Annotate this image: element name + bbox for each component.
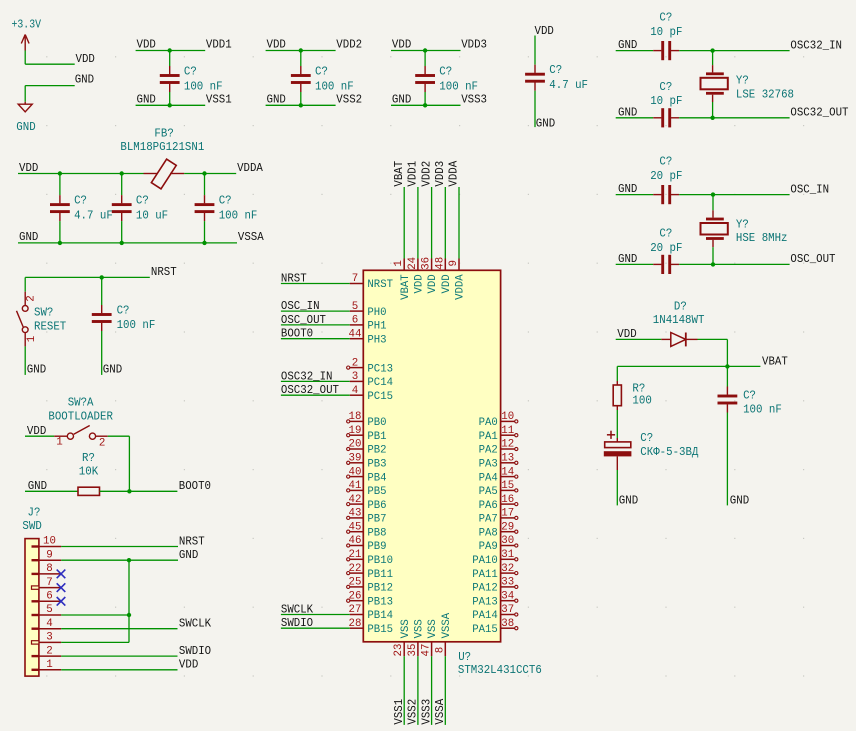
svg-text:OSC_OUT: OSC_OUT bbox=[281, 313, 326, 327]
wire GND to resistor bbox=[25, 490, 78, 492]
svg-text:C?: C? bbox=[315, 65, 328, 79]
wire MCU bottom pin 35 to VSS2 bbox=[417, 642, 419, 725]
ground symbol bbox=[18, 102, 32, 112]
MCU pin 39 PB3 (unconnected) bbox=[347, 461, 364, 464]
MCU pin 13 PA3 (unconnected) bbox=[501, 461, 518, 464]
svg-text:PB4: PB4 bbox=[367, 472, 386, 484]
junction VDD rail B bbox=[120, 171, 124, 175]
svg-text:48: 48 bbox=[434, 257, 446, 270]
wire resistor to BOOT0 bbox=[100, 490, 178, 492]
junction top block 1 bbox=[168, 48, 172, 52]
capacitor C? 20 pF a bbox=[653, 185, 679, 204]
junction OSC_OUT bbox=[711, 262, 715, 266]
MCU pin 21 PB10 (unconnected) bbox=[347, 558, 364, 561]
svg-text:34: 34 bbox=[501, 590, 514, 602]
wire MCU bottom pin 47 to VSS3 bbox=[431, 642, 433, 725]
capacitor C? 10 pF b bbox=[653, 108, 679, 127]
svg-text:OSC32_IN: OSC32_IN bbox=[790, 38, 842, 52]
svg-text:VSS: VSS bbox=[414, 619, 426, 638]
svg-text:C?: C? bbox=[659, 226, 672, 240]
svg-text:D?: D? bbox=[674, 300, 687, 314]
svg-text:29: 29 bbox=[501, 521, 514, 533]
svg-text:C?: C? bbox=[640, 431, 653, 445]
junction VDDA bbox=[202, 171, 206, 175]
svg-text:2: 2 bbox=[352, 357, 359, 369]
svg-text:C?: C? bbox=[219, 194, 232, 208]
svg-text:7: 7 bbox=[352, 273, 359, 285]
svg-text:1: 1 bbox=[26, 336, 38, 343]
svg-text:10 pF: 10 pF bbox=[650, 25, 682, 39]
svg-text:VSSA: VSSA bbox=[433, 698, 447, 725]
capacitor C? 4.7uF analog bbox=[50, 174, 70, 243]
MCU pin 31 PA10 (unconnected) bbox=[501, 558, 518, 561]
svg-text:C?: C? bbox=[659, 155, 672, 169]
svg-text:PH3: PH3 bbox=[367, 334, 386, 346]
wire GND rail block 2 bbox=[266, 104, 336, 106]
junction VSSA rail B bbox=[120, 241, 124, 245]
wire VBAT to resistor bbox=[616, 366, 618, 381]
wire pin9 GND bbox=[61, 559, 178, 561]
junction pin5 bus bbox=[127, 613, 131, 617]
svg-text:GND: GND bbox=[137, 92, 156, 106]
wire cap to OSC_OUT bbox=[679, 263, 789, 265]
svg-text:LSE 32768: LSE 32768 bbox=[736, 87, 794, 101]
svg-text:16: 16 bbox=[501, 494, 514, 506]
wire VDD3 to MCU top pin 48 bbox=[444, 187, 446, 270]
capacitor C? 20 pF b bbox=[653, 255, 679, 274]
svg-text:39: 39 bbox=[349, 453, 362, 465]
svg-text:47: 47 bbox=[421, 644, 433, 657]
svg-text:BOOT0: BOOT0 bbox=[281, 327, 313, 341]
MCU pin 10 PA0 (unconnected) bbox=[501, 420, 518, 423]
svg-text:C?: C? bbox=[439, 65, 452, 79]
svg-text:VSS1: VSS1 bbox=[206, 92, 232, 106]
svg-text:GND: GND bbox=[19, 230, 38, 244]
connector pin 10 bbox=[32, 545, 62, 547]
wire GND to cap (OSC_OUT) bbox=[616, 263, 654, 265]
svg-text:28: 28 bbox=[349, 618, 362, 630]
MCU pin 22 PB11 (unconnected) bbox=[347, 572, 364, 575]
svg-text:VDD1: VDD1 bbox=[206, 38, 232, 52]
svg-text:PA12: PA12 bbox=[472, 583, 498, 595]
svg-text:PA5: PA5 bbox=[479, 486, 498, 498]
wire VDD2 to MCU top pin 36 bbox=[431, 187, 433, 270]
svg-text:SWDIO: SWDIO bbox=[281, 616, 313, 630]
svg-text:18: 18 bbox=[349, 411, 362, 423]
svg-text:OSC32_OUT: OSC32_OUT bbox=[790, 106, 848, 120]
svg-text:1N4148WT: 1N4148WT bbox=[653, 313, 705, 327]
svg-text:19: 19 bbox=[349, 425, 362, 437]
junction bottom block 1 bbox=[168, 103, 172, 107]
svg-text:9: 9 bbox=[448, 260, 460, 267]
junction OSC_IN bbox=[711, 192, 715, 196]
svg-text:VDD3: VDD3 bbox=[433, 161, 447, 187]
svg-text:4.7 uF: 4.7 uF bbox=[549, 78, 588, 92]
svg-text:SWD: SWD bbox=[22, 519, 41, 533]
svg-text:Y?: Y? bbox=[736, 217, 749, 231]
MCU pin 42 PB6 (unconnected) bbox=[347, 503, 364, 506]
svg-text:PA6: PA6 bbox=[479, 500, 498, 512]
connector pin 7 bbox=[32, 586, 62, 589]
svg-text:37: 37 bbox=[501, 604, 514, 616]
svg-text:PB0: PB0 bbox=[367, 417, 386, 429]
wire GND to cap (OSC_IN) bbox=[616, 194, 654, 196]
diode D? 1N4148WT bbox=[661, 333, 697, 347]
svg-text:C?: C? bbox=[659, 80, 672, 94]
svg-text:STM32L431CCT6: STM32L431CCT6 bbox=[458, 663, 542, 677]
wire OSC32_IN to MCU pin 3 bbox=[281, 380, 363, 382]
svg-text:BOOTLOADER: BOOTLOADER bbox=[48, 410, 113, 424]
svg-text:24: 24 bbox=[407, 257, 419, 270]
capacitor C? 100nF vbat bbox=[718, 366, 738, 505]
svg-text:46: 46 bbox=[349, 535, 362, 547]
crystal Y? HSE bbox=[701, 195, 728, 265]
wire VBAT net bbox=[617, 365, 760, 367]
wire VDDA to MCU top pin 9 bbox=[458, 187, 460, 270]
svg-text:VSSA: VSSA bbox=[441, 612, 453, 638]
svg-text:6: 6 bbox=[352, 315, 359, 327]
svg-text:VDD2: VDD2 bbox=[419, 161, 433, 187]
svg-text:30: 30 bbox=[501, 535, 514, 547]
capacitor C? 10uF analog bbox=[112, 174, 132, 243]
svg-text:31: 31 bbox=[501, 549, 514, 561]
svg-text:VBAT: VBAT bbox=[400, 274, 412, 300]
svg-text:40: 40 bbox=[349, 466, 362, 478]
svg-text:10 pF: 10 pF bbox=[650, 94, 682, 108]
MCU pin 43 PB7 (unconnected) bbox=[347, 516, 364, 519]
svg-text:PB8: PB8 bbox=[367, 527, 386, 539]
MCU pin 37 PA14 (unconnected) bbox=[501, 613, 518, 616]
svg-text:GND: GND bbox=[619, 494, 638, 508]
MCU pin 34 PA13 (unconnected) bbox=[501, 599, 518, 602]
svg-text:PB15: PB15 bbox=[367, 624, 393, 636]
svg-text:PA4: PA4 bbox=[479, 472, 498, 484]
svg-text:BOOT0: BOOT0 bbox=[179, 479, 211, 493]
svg-text:PC13: PC13 bbox=[367, 363, 393, 375]
wire VDD rail block 3 bbox=[391, 50, 461, 52]
svg-text:VDD: VDD bbox=[414, 274, 426, 293]
switch SW?A BOOTLOADER bbox=[54, 426, 108, 440]
capacitor C? 100nF analog bbox=[195, 174, 215, 243]
svg-text:100 nF: 100 nF bbox=[315, 79, 354, 93]
svg-text:41: 41 bbox=[349, 480, 362, 492]
svg-text:VBAT: VBAT bbox=[392, 161, 406, 187]
svg-text:PH1: PH1 bbox=[367, 321, 386, 333]
capacitor C? 4.7uF bbox=[525, 36, 545, 128]
wire pin1 VDD bbox=[61, 669, 177, 671]
wire pin2 SWDIO bbox=[61, 655, 177, 657]
svg-text:4: 4 bbox=[46, 618, 53, 630]
svg-text:22: 22 bbox=[349, 563, 362, 575]
junction VSSA rail A bbox=[58, 241, 62, 245]
wire GND to cap (OSC32_OUT) bbox=[616, 117, 654, 119]
MCU pin 40 PB4 (unconnected) bbox=[347, 475, 364, 478]
svg-text:PB13: PB13 bbox=[367, 596, 393, 608]
svg-text:PA13: PA13 bbox=[472, 596, 498, 608]
connector pin 6 bbox=[32, 600, 62, 602]
wire VDD to ferrite bead bbox=[18, 173, 144, 175]
battery C? polarized bbox=[604, 431, 632, 470]
svg-text:PB10: PB10 bbox=[367, 555, 393, 567]
wire SWDIO to MCU pin 28 bbox=[281, 627, 363, 629]
wire GND to ground symbol bbox=[25, 86, 74, 102]
MCU pin 12 PA2 (unconnected) bbox=[501, 447, 518, 450]
svg-text:VSS3: VSS3 bbox=[461, 92, 487, 106]
svg-text:PB5: PB5 bbox=[367, 486, 386, 498]
svg-text:VDD: VDD bbox=[137, 38, 156, 52]
wire cap to OSC_IN bbox=[679, 194, 789, 196]
svg-text:5: 5 bbox=[46, 604, 53, 616]
resistor R? 10K bbox=[78, 487, 100, 495]
wire resistor to battery bbox=[616, 410, 618, 438]
wire GND rail block 1 bbox=[136, 104, 206, 106]
MCU pin 19 PB1 (unconnected) bbox=[347, 434, 364, 437]
connector pin 8 bbox=[32, 573, 62, 575]
capacitor C? 100nF block 1 bbox=[160, 51, 180, 106]
MCU pin 45 PB8 (unconnected) bbox=[347, 530, 364, 533]
svg-text:2: 2 bbox=[46, 645, 53, 657]
svg-text:GND: GND bbox=[179, 548, 198, 562]
svg-text:6: 6 bbox=[46, 591, 53, 603]
svg-text:32: 32 bbox=[501, 563, 514, 575]
resistor R? 100 bbox=[613, 381, 621, 410]
svg-text:PB3: PB3 bbox=[367, 459, 386, 471]
svg-text:10 uF: 10 uF bbox=[136, 208, 168, 222]
wire pin5 to bus bbox=[61, 614, 129, 616]
svg-text:FB?: FB? bbox=[154, 127, 173, 141]
wire VDD rail block 2 bbox=[266, 50, 336, 52]
wire pin3 to bus bbox=[61, 641, 129, 643]
wire battery to GND bbox=[616, 470, 618, 505]
svg-text:PA2: PA2 bbox=[479, 445, 498, 457]
svg-text:VDD3: VDD3 bbox=[461, 38, 487, 52]
junction pin9 bus bbox=[127, 558, 131, 562]
wire NRST to switch bbox=[24, 277, 26, 291]
wire SWCLK to MCU pin 27 bbox=[281, 614, 363, 616]
MCU pin 17 PA7 (unconnected) bbox=[501, 516, 518, 519]
svg-text:PB11: PB11 bbox=[367, 569, 393, 581]
wire +3.3V to VDD bbox=[25, 51, 74, 65]
svg-text:VDD: VDD bbox=[19, 161, 38, 175]
wire switch to GND bbox=[24, 346, 26, 375]
wire OSC_IN to MCU pin 5 bbox=[281, 310, 363, 312]
svg-text:VDDA: VDDA bbox=[455, 274, 467, 300]
svg-text:VDD: VDD bbox=[535, 24, 554, 38]
wire pin10 NRST bbox=[61, 546, 178, 548]
svg-text:27: 27 bbox=[349, 604, 362, 616]
op-amp U? body (MCU STM32L431CCT6) bbox=[363, 270, 500, 642]
svg-text:36: 36 bbox=[421, 257, 433, 270]
capacitor C? 100nF block 3 bbox=[415, 51, 435, 106]
svg-text:C?: C? bbox=[743, 389, 756, 403]
svg-text:100 nF: 100 nF bbox=[184, 79, 223, 93]
svg-text:10: 10 bbox=[501, 411, 514, 423]
svg-text:GND: GND bbox=[730, 494, 749, 508]
MCU pin 15 PA5 (unconnected) bbox=[501, 489, 518, 492]
svg-text:7: 7 bbox=[46, 577, 53, 589]
svg-text:100 nF: 100 nF bbox=[743, 403, 782, 417]
svg-text:PA3: PA3 bbox=[479, 459, 498, 471]
wire diode to VBAT node bbox=[698, 339, 728, 366]
MCU pin 26 PB13 (unconnected) bbox=[347, 599, 364, 602]
svg-text:1: 1 bbox=[46, 659, 53, 671]
svg-text:2: 2 bbox=[99, 438, 106, 450]
svg-text:VSSA: VSSA bbox=[238, 230, 265, 244]
wire NRST to MCU pin 7 bbox=[281, 283, 363, 285]
svg-text:GND: GND bbox=[16, 120, 35, 134]
ferrite bead FB? bbox=[144, 159, 185, 189]
svg-text:100 nF: 100 nF bbox=[439, 79, 478, 93]
connector pin 2 bbox=[32, 655, 62, 657]
MCU pin 25 PB12 (unconnected) bbox=[347, 585, 364, 588]
svg-text:GND: GND bbox=[103, 363, 122, 377]
svg-text:VDD2: VDD2 bbox=[336, 38, 362, 52]
wire VDD to diode bbox=[616, 338, 662, 340]
svg-text:42: 42 bbox=[349, 494, 362, 506]
svg-text:BLM18PG121SN1: BLM18PG121SN1 bbox=[120, 140, 204, 154]
MCU pin 33 PA12 (unconnected) bbox=[501, 585, 518, 588]
svg-text:25: 25 bbox=[349, 577, 362, 589]
svg-text:R?: R? bbox=[82, 451, 95, 465]
svg-text:VDD: VDD bbox=[267, 38, 286, 52]
wire NRST net bbox=[25, 276, 150, 278]
svg-text:10K: 10K bbox=[79, 464, 99, 478]
svg-text:Y?: Y? bbox=[736, 74, 749, 88]
svg-text:3: 3 bbox=[46, 632, 53, 644]
wire GND rail block 3 bbox=[391, 104, 461, 106]
MCU pin 2 PC13 (unconnected) bbox=[347, 366, 364, 369]
svg-text:PA0: PA0 bbox=[479, 417, 498, 429]
svg-text:SW?: SW? bbox=[34, 306, 53, 320]
svg-text:J?: J? bbox=[28, 506, 41, 520]
wire MCU bottom pin 8 to VSSA bbox=[444, 642, 446, 725]
svg-text:PA9: PA9 bbox=[479, 541, 498, 553]
capacitor C? 100nF block 2 bbox=[291, 51, 311, 106]
svg-text:PA1: PA1 bbox=[479, 431, 498, 443]
wire GND to cap (OSC32_IN) bbox=[616, 50, 654, 52]
svg-text:OSC_OUT: OSC_OUT bbox=[790, 252, 835, 266]
svg-text:VSS3: VSS3 bbox=[419, 699, 433, 725]
svg-text:GND: GND bbox=[267, 92, 286, 106]
svg-text:8: 8 bbox=[434, 647, 446, 654]
svg-text:43: 43 bbox=[349, 508, 362, 520]
MCU pin 32 PA11 (unconnected) bbox=[501, 572, 518, 575]
wire OSC_OUT to MCU pin 6 bbox=[281, 324, 363, 326]
MCU pin 41 PB5 (unconnected) bbox=[347, 489, 364, 492]
junction VBAT bbox=[725, 364, 729, 368]
power flag +3.3V bbox=[21, 35, 29, 51]
svg-text:15: 15 bbox=[501, 480, 514, 492]
svg-text:8: 8 bbox=[46, 563, 53, 575]
svg-text:PC14: PC14 bbox=[367, 377, 393, 389]
svg-text:OSC_IN: OSC_IN bbox=[790, 182, 829, 196]
junction NRST bbox=[100, 275, 104, 279]
svg-text:11: 11 bbox=[501, 425, 514, 437]
svg-text:VBAT: VBAT bbox=[762, 354, 788, 368]
svg-text:20 pF: 20 pF bbox=[650, 169, 682, 183]
svg-text:14: 14 bbox=[501, 466, 514, 478]
MCU pin 46 PB9 (unconnected) bbox=[347, 544, 364, 547]
svg-text:C?: C? bbox=[549, 63, 562, 77]
svg-text:PA10: PA10 bbox=[472, 555, 498, 567]
svg-text:PB2: PB2 bbox=[367, 445, 386, 457]
switch SW? RESET bbox=[17, 292, 29, 347]
svg-text:12: 12 bbox=[501, 439, 514, 451]
svg-text:C?: C? bbox=[74, 194, 87, 208]
MCU pin 18 PB0 (unconnected) bbox=[347, 420, 364, 423]
wire pin4 SWCLK bbox=[61, 628, 177, 630]
wire ferrite bead to VDDA bbox=[184, 173, 236, 175]
svg-text:VSS1: VSS1 bbox=[392, 699, 406, 725]
wire BOOT0 to MCU pin 44 bbox=[281, 338, 363, 340]
junction VSSA rail C bbox=[202, 241, 206, 245]
junction top block 3 bbox=[423, 48, 427, 52]
svg-text:2: 2 bbox=[26, 295, 38, 302]
svg-text:PA14: PA14 bbox=[472, 610, 498, 622]
svg-text:HSE 8MHz: HSE 8MHz bbox=[736, 231, 788, 245]
svg-text:NRST: NRST bbox=[179, 534, 205, 548]
svg-text:9: 9 bbox=[46, 549, 53, 561]
svg-text:VDDA: VDDA bbox=[237, 161, 264, 175]
svg-text:VDDA: VDDA bbox=[447, 160, 461, 187]
svg-text:13: 13 bbox=[501, 453, 514, 465]
svg-text:35: 35 bbox=[407, 644, 419, 657]
svg-text:17: 17 bbox=[501, 508, 514, 520]
svg-text:100 nF: 100 nF bbox=[219, 208, 258, 222]
svg-text:20 pF: 20 pF bbox=[650, 241, 682, 255]
svg-text:VSS2: VSS2 bbox=[336, 92, 362, 106]
connector pin 5 bbox=[32, 614, 62, 616]
svg-text:26: 26 bbox=[349, 590, 362, 602]
svg-text:PB9: PB9 bbox=[367, 541, 386, 553]
svg-text:PA7: PA7 bbox=[479, 514, 498, 526]
svg-text:PB14: PB14 bbox=[367, 610, 393, 622]
no-connect X pin 6 bbox=[57, 597, 66, 606]
svg-text:RESET: RESET bbox=[34, 320, 66, 334]
svg-text:VDD: VDD bbox=[441, 274, 453, 293]
svg-text:PH0: PH0 bbox=[367, 307, 386, 319]
svg-text:44: 44 bbox=[349, 328, 362, 340]
MCU pin 30 PA9 (unconnected) bbox=[501, 544, 518, 547]
svg-text:SWCLK: SWCLK bbox=[281, 602, 314, 616]
MCU pin 29 PA8 (unconnected) bbox=[501, 530, 518, 533]
svg-text:GND: GND bbox=[536, 117, 555, 131]
wire VDD1 to MCU top pin 24 bbox=[417, 187, 419, 270]
svg-text:21: 21 bbox=[349, 549, 362, 561]
wire cap to OSC32_OUT bbox=[679, 117, 789, 119]
MCU pin 16 PA6 (unconnected) bbox=[501, 503, 518, 506]
connector pin 3 bbox=[32, 641, 62, 644]
svg-text:100: 100 bbox=[632, 393, 651, 407]
svg-text:SW?A: SW?A bbox=[68, 396, 95, 410]
junction VDD rail A bbox=[58, 171, 62, 175]
svg-text:C?: C? bbox=[136, 194, 149, 208]
capacitor C? 10 pF a bbox=[653, 41, 679, 60]
wire MCU bottom pin 23 to VSS1 bbox=[403, 642, 405, 725]
svg-text:VDD1: VDD1 bbox=[406, 161, 420, 187]
no-connect X pin 8 bbox=[57, 570, 66, 579]
svg-text:38: 38 bbox=[501, 618, 514, 630]
svg-text:45: 45 bbox=[349, 521, 362, 533]
wire cap to OSC32_IN bbox=[679, 50, 789, 52]
svg-text:3: 3 bbox=[352, 371, 359, 383]
connector pin 1 bbox=[32, 669, 62, 671]
junction bottom block 2 bbox=[299, 103, 303, 107]
svg-text:OSC32_IN: OSC32_IN bbox=[281, 369, 333, 383]
svg-text:GND: GND bbox=[392, 92, 411, 106]
svg-text:OSC32_OUT: OSC32_OUT bbox=[281, 383, 339, 397]
wire VDD to switch SW?A bbox=[25, 435, 54, 437]
